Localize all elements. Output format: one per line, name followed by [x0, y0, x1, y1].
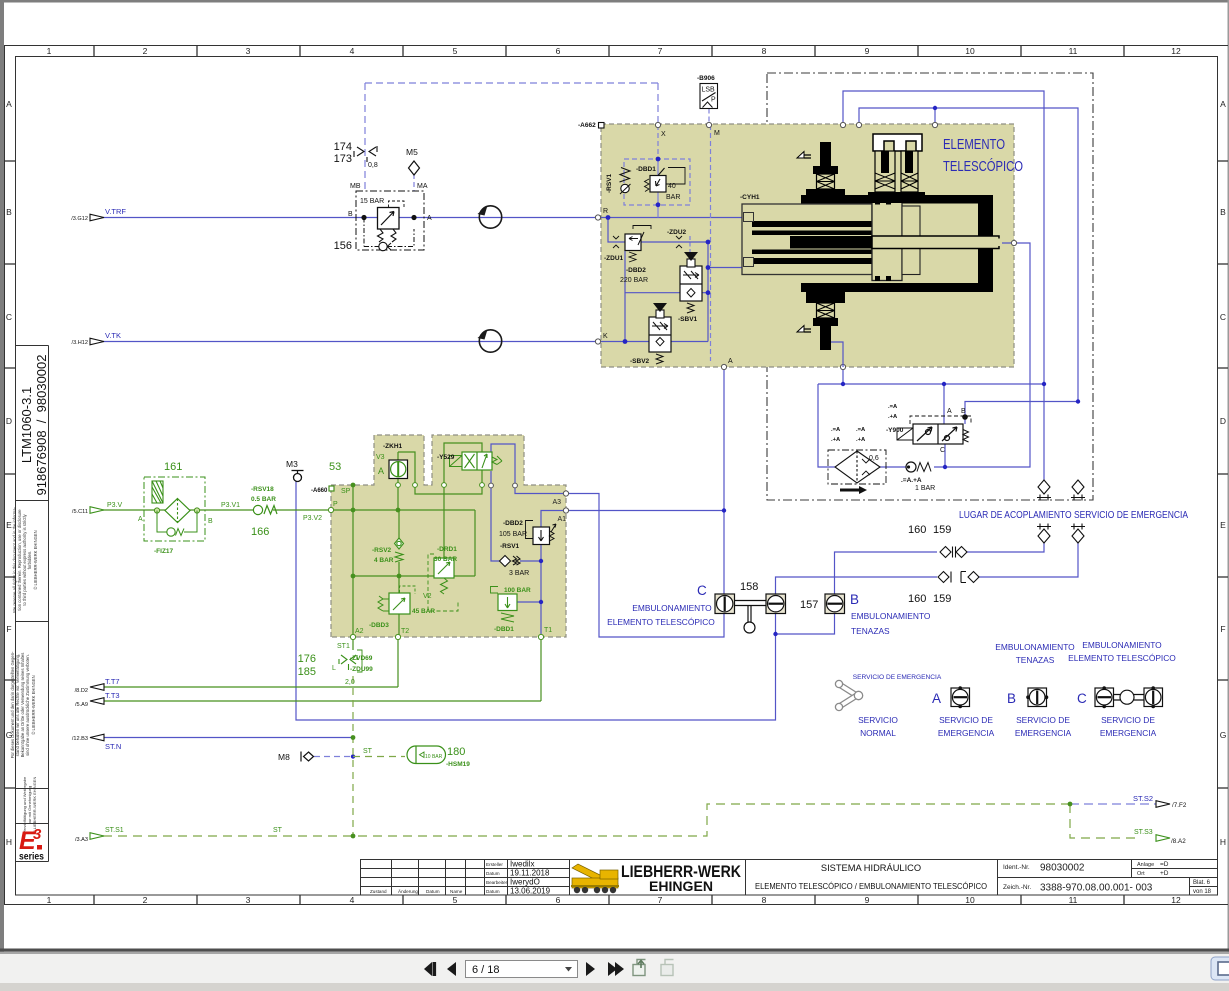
- svg-text:C: C: [1077, 691, 1087, 706]
- svg-text:EMBULONAMIENTO: EMBULONAMIENTO: [851, 611, 931, 621]
- svg-text:SERVICIO DE: SERVICIO DE: [1101, 715, 1155, 725]
- svg-text:5: 5: [453, 895, 458, 905]
- svg-text:von 18: von 18: [1193, 889, 1212, 895]
- svg-text:A: A: [378, 466, 384, 476]
- svg-text:EMBULONAMIENTO: EMBULONAMIENTO: [995, 642, 1075, 652]
- svg-text:7: 7: [658, 46, 663, 56]
- svg-text:8: 8: [762, 895, 767, 905]
- svg-text:-A660: -A660: [311, 488, 328, 494]
- svg-text:-DBD1: -DBD1: [494, 626, 514, 633]
- svg-text:98030002: 98030002: [1040, 863, 1085, 874]
- svg-text:4: 4: [350, 46, 355, 56]
- svg-text:ST1: ST1: [337, 643, 350, 650]
- svg-text:V.TRF: V.TRF: [105, 207, 126, 216]
- svg-text:-DBD1: -DBD1: [636, 166, 656, 173]
- svg-text:-ZDU2: -ZDU2: [667, 229, 687, 236]
- svg-text:13.06.2019: 13.06.2019: [510, 887, 551, 896]
- svg-text:K: K: [603, 333, 608, 340]
- svg-text:-RSV1: -RSV1: [606, 173, 613, 193]
- svg-text:MB: MB: [350, 183, 361, 190]
- svg-text:-RSV18: -RSV18: [251, 486, 274, 493]
- svg-text:6: 6: [556, 895, 561, 905]
- svg-text:V2: V2: [423, 593, 432, 600]
- svg-text:LSB: LSB: [702, 87, 716, 94]
- svg-text:/7.F2: /7.F2: [1172, 802, 1187, 809]
- svg-text:EMBULONAMIENTO: EMBULONAMIENTO: [1082, 640, 1162, 650]
- svg-text:6 / 18: 6 / 18: [472, 964, 500, 976]
- svg-text:12: 12: [1171, 895, 1181, 905]
- svg-text:A: A: [932, 691, 941, 706]
- svg-text:.=A: .=A: [831, 427, 841, 433]
- svg-text:© LIEBHERR-WERK EHINGEN: © LIEBHERR-WERK EHINGEN: [32, 777, 37, 834]
- svg-text:166: 166: [251, 526, 269, 538]
- svg-text:C: C: [940, 447, 945, 454]
- svg-text:4: 4: [350, 895, 355, 905]
- svg-text:159: 159: [933, 524, 951, 536]
- svg-text:5: 5: [453, 46, 458, 56]
- svg-text:.=A: .=A: [856, 427, 866, 433]
- svg-text:+D: +D: [1160, 870, 1169, 877]
- svg-text:G: G: [1220, 730, 1227, 740]
- svg-text:ELEMENTO TELESCÓPICO / EMBULON: ELEMENTO TELESCÓPICO / EMBULONAMIENTO TE…: [755, 881, 987, 891]
- svg-text:/3.H12: /3.H12: [72, 340, 88, 346]
- svg-text:X: X: [661, 131, 666, 138]
- svg-text:ST.S2: ST.S2: [1133, 794, 1153, 803]
- svg-text:2,0: 2,0: [345, 679, 355, 686]
- svg-text:45 BAR: 45 BAR: [412, 608, 435, 615]
- svg-text:159: 159: [933, 593, 951, 605]
- svg-text:ELEMENTO TELESCÓPICO: ELEMENTO TELESCÓPICO: [1068, 653, 1176, 663]
- svg-text:B: B: [208, 518, 213, 525]
- svg-text:B: B: [6, 207, 12, 217]
- svg-text:M5: M5: [406, 147, 418, 157]
- svg-text:P: P: [711, 97, 716, 104]
- svg-text:sind ohne unsere ausdrückliche: sind ohne unsere ausdrückliche Zustimmun…: [25, 654, 30, 756]
- svg-text:M8: M8: [278, 752, 290, 762]
- svg-text:M3: M3: [286, 459, 298, 469]
- svg-text:H: H: [6, 837, 12, 847]
- svg-text:19.11.2018: 19.11.2018: [510, 869, 550, 878]
- svg-text:158: 158: [740, 581, 758, 593]
- svg-text:T.T3: T.T3: [105, 691, 120, 700]
- svg-text:.+A: .+A: [831, 437, 841, 443]
- svg-text:-ZDU1: -ZDU1: [604, 255, 624, 262]
- svg-text:ST.S3: ST.S3: [1134, 829, 1153, 836]
- svg-text:A: A: [728, 358, 733, 365]
- svg-text:A2: A2: [355, 628, 364, 635]
- svg-text:220 BAR: 220 BAR: [620, 277, 648, 284]
- svg-text:A: A: [947, 408, 952, 415]
- svg-text:EMERGENCIA: EMERGENCIA: [1100, 728, 1157, 738]
- svg-text:Datum: Datum: [486, 871, 500, 876]
- svg-text:series: series: [19, 851, 44, 863]
- svg-text:-Y529: -Y529: [437, 454, 455, 461]
- svg-text:3: 3: [33, 826, 42, 843]
- svg-text:-RSV1: -RSV1: [500, 543, 520, 550]
- svg-text:Zustand: Zustand: [370, 889, 387, 894]
- svg-text:.=A: .=A: [888, 404, 898, 410]
- svg-text:-DBD2: -DBD2: [626, 267, 646, 274]
- svg-text:C: C: [697, 583, 707, 598]
- svg-text:-FIZ17: -FIZ17: [154, 548, 174, 555]
- svg-text:10: 10: [965, 46, 975, 56]
- svg-text:A: A: [138, 516, 143, 523]
- svg-text:3: 3: [246, 895, 251, 905]
- svg-text:SP: SP: [341, 488, 351, 495]
- svg-text:=D: =D: [1160, 861, 1169, 868]
- svg-text:40: 40: [668, 183, 676, 190]
- svg-text:-RSV2: -RSV2: [372, 547, 392, 554]
- svg-text:V3: V3: [376, 454, 385, 461]
- svg-text:Anlage: Anlage: [1137, 862, 1154, 868]
- svg-text:180: 180: [447, 746, 465, 758]
- svg-text:0,8: 0,8: [368, 162, 378, 169]
- svg-text:A: A: [6, 99, 12, 109]
- svg-text:3: 3: [246, 46, 251, 56]
- svg-text:/5.C11: /5.C11: [72, 509, 88, 515]
- svg-text:15 BAR: 15 BAR: [360, 198, 384, 205]
- svg-text:T1: T1: [544, 627, 552, 634]
- svg-text:30 BAR: 30 BAR: [434, 556, 457, 563]
- svg-text:10: 10: [965, 895, 975, 905]
- svg-text:TENAZAS: TENAZAS: [851, 626, 890, 636]
- svg-text:Änderung: Änderung: [398, 888, 418, 894]
- svg-text:BAR: BAR: [666, 194, 680, 201]
- svg-text:Iwedilx: Iwedilx: [510, 860, 534, 869]
- svg-text:TENAZAS: TENAZAS: [1016, 655, 1055, 665]
- svg-text:NORMAL: NORMAL: [860, 728, 896, 738]
- svg-text:SISTEMA HIDRÁULICO: SISTEMA HIDRÁULICO: [821, 863, 921, 873]
- svg-text:Name: Name: [450, 889, 463, 894]
- svg-text:ST: ST: [363, 748, 373, 755]
- svg-text:H: H: [1220, 837, 1226, 847]
- svg-text:2: 2: [143, 895, 148, 905]
- svg-text:161: 161: [164, 461, 182, 473]
- svg-text:SERVICIO DE: SERVICIO DE: [939, 715, 993, 725]
- svg-text:100 BAR: 100 BAR: [504, 587, 531, 594]
- svg-text:2: 2: [143, 46, 148, 56]
- svg-text:D: D: [6, 416, 12, 426]
- svg-text:SERVICIO DE EMERGENCIA: SERVICIO DE EMERGENCIA: [853, 674, 942, 681]
- svg-text:B: B: [1007, 691, 1016, 706]
- svg-text:E: E: [1220, 520, 1226, 530]
- svg-text:-SBV2: -SBV2: [630, 358, 650, 365]
- svg-text:-ZDU99: -ZDU99: [350, 666, 373, 673]
- svg-text:-DBD2: -DBD2: [503, 520, 523, 527]
- svg-text:MA: MA: [417, 183, 428, 190]
- svg-text:160: 160: [908, 524, 926, 536]
- svg-text:160: 160: [908, 593, 926, 605]
- svg-text:9: 9: [865, 46, 870, 56]
- svg-text:Blat. 6: Blat. 6: [1193, 880, 1211, 886]
- svg-text:Datum: Datum: [426, 889, 440, 894]
- svg-text:Bearbeiter: Bearbeiter: [486, 880, 508, 885]
- svg-text:LUGAR DE ACOPLAMIENTO SERVICI: LUGAR DE ACOPLAMIENTO SERVICIO DE EMERGE…: [959, 509, 1188, 521]
- svg-text:/5.A9: /5.A9: [75, 702, 88, 708]
- svg-text:1: 1: [47, 895, 52, 905]
- svg-text:/8.D2: /8.D2: [75, 688, 88, 694]
- svg-text:4 BAR: 4 BAR: [374, 557, 394, 564]
- svg-text:B: B: [961, 408, 966, 415]
- svg-text:C: C: [6, 312, 12, 322]
- svg-text:EHINGEN: EHINGEN: [649, 879, 713, 894]
- svg-text:EMBULONAMIENTO: EMBULONAMIENTO: [632, 603, 712, 613]
- svg-text:0,6: 0,6: [869, 455, 879, 462]
- svg-text:EMERGENCIA: EMERGENCIA: [938, 728, 995, 738]
- svg-text:forbidden.: forbidden.: [27, 551, 32, 570]
- svg-text:ELEMENTO TELESCÓPICO: ELEMENTO TELESCÓPICO: [607, 617, 715, 627]
- svg-text:11: 11: [1069, 46, 1078, 56]
- svg-text:A: A: [427, 215, 432, 222]
- svg-text:157: 157: [800, 599, 818, 611]
- svg-text:Zeich.-Nr.: Zeich.-Nr.: [1003, 884, 1031, 891]
- svg-text:173: 173: [334, 153, 352, 165]
- svg-text:-HSM19: -HSM19: [446, 761, 470, 768]
- svg-text:1: 1: [47, 46, 52, 56]
- svg-text:-Y900: -Y900: [886, 427, 904, 434]
- svg-text:Ident.-Nr.: Ident.-Nr.: [1003, 864, 1030, 871]
- svg-text:174: 174: [334, 141, 352, 153]
- svg-text:11: 11: [1069, 895, 1078, 905]
- svg-text:53: 53: [329, 461, 341, 473]
- svg-text:A3: A3: [552, 499, 561, 506]
- svg-text:-DRD1: -DRD1: [437, 546, 457, 553]
- svg-text:/8.A2: /8.A2: [1171, 838, 1186, 845]
- svg-text:P3.V1: P3.V1: [221, 502, 240, 509]
- svg-text:T.T7: T.T7: [105, 677, 120, 686]
- svg-text:156: 156: [334, 240, 352, 252]
- svg-text:/3.A3: /3.A3: [75, 837, 88, 843]
- svg-text:10 BAR: 10 BAR: [425, 754, 443, 760]
- svg-text:D: D: [1220, 416, 1226, 426]
- svg-text:T2: T2: [401, 628, 409, 635]
- svg-text:6: 6: [556, 46, 561, 56]
- svg-text:1 BAR: 1 BAR: [915, 485, 935, 492]
- svg-text:© LIEBHERR-WERK EHINGEN: © LIEBHERR-WERK EHINGEN: [31, 675, 36, 734]
- svg-text:IwerydO: IwerydO: [510, 878, 540, 887]
- svg-text:ST.S1: ST.S1: [105, 827, 124, 834]
- svg-text:-DBD3: -DBD3: [369, 622, 389, 629]
- svg-text:7: 7: [658, 895, 663, 905]
- svg-text:F: F: [6, 624, 11, 634]
- svg-text:.+A: .+A: [888, 414, 898, 420]
- svg-text:.+A: .+A: [856, 437, 866, 443]
- svg-text:C: C: [1220, 312, 1226, 322]
- svg-text:3388-970.08.00.001- 003: 3388-970.08.00.001- 003: [1040, 883, 1153, 894]
- svg-text:-A662: -A662: [578, 122, 596, 129]
- svg-text:A1: A1: [557, 516, 566, 523]
- svg-text:B: B: [1220, 207, 1226, 217]
- svg-text:-B906: -B906: [697, 75, 715, 82]
- svg-text:/3.G12: /3.G12: [71, 216, 88, 222]
- svg-text:V.TK: V.TK: [105, 331, 121, 340]
- svg-text:12: 12: [1171, 46, 1181, 56]
- svg-text:3 BAR: 3 BAR: [509, 570, 529, 577]
- svg-text:-CYH1: -CYH1: [740, 194, 760, 201]
- svg-text:ST.N: ST.N: [105, 742, 121, 751]
- svg-text:Ort: Ort: [1137, 871, 1145, 877]
- svg-text:F: F: [1220, 624, 1225, 634]
- svg-text:-ZKH1: -ZKH1: [383, 443, 403, 450]
- svg-text:0.5 BAR: 0.5 BAR: [251, 496, 276, 503]
- svg-text:-SBV1: -SBV1: [678, 316, 698, 323]
- svg-text:Datum: Datum: [486, 889, 500, 894]
- svg-text:© LIEBHERR-WERK EHINGEN: © LIEBHERR-WERK EHINGEN: [33, 530, 38, 589]
- svg-text:ST: ST: [273, 827, 283, 834]
- svg-text:P3.V: P3.V: [107, 502, 123, 509]
- svg-text:SERVICIO: SERVICIO: [858, 715, 898, 725]
- svg-text:M: M: [714, 130, 720, 137]
- svg-text:EMERGENCIA: EMERGENCIA: [1015, 728, 1072, 738]
- svg-text:B: B: [348, 211, 353, 218]
- svg-text:L: L: [332, 665, 336, 672]
- svg-text:R: R: [603, 208, 608, 215]
- svg-text:B: B: [850, 592, 859, 607]
- svg-text:Ersteller: Ersteller: [486, 862, 503, 867]
- svg-text:8: 8: [762, 46, 767, 56]
- svg-text:-ZVD69: -ZVD69: [350, 655, 373, 662]
- svg-text:A: A: [1220, 99, 1226, 109]
- svg-text:SERVICIO DE: SERVICIO DE: [1016, 715, 1070, 725]
- svg-text:P: P: [333, 501, 338, 508]
- svg-text:TELESCÓPICO: TELESCÓPICO: [943, 158, 1023, 175]
- svg-text:P3.V2: P3.V2: [303, 515, 322, 522]
- svg-text:.=A.+A: .=A.+A: [901, 477, 922, 484]
- svg-text:918676908 / 98030002: 918676908 / 98030002: [34, 355, 49, 496]
- svg-text:105 BAR: 105 BAR: [499, 531, 527, 538]
- svg-text:185: 185: [298, 666, 316, 678]
- svg-text:9: 9: [865, 895, 870, 905]
- svg-text:ELEMENTO: ELEMENTO: [943, 136, 1005, 153]
- svg-text:LTM1060-3.1: LTM1060-3.1: [19, 387, 34, 463]
- svg-text:/12.B3: /12.B3: [72, 736, 88, 742]
- svg-text:176: 176: [298, 653, 316, 665]
